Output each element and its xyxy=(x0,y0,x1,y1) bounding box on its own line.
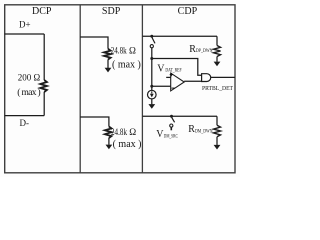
resistor R_DM_DWN top lead xyxy=(216,116,218,125)
junction node to comparator input branch xyxy=(150,85,153,88)
svg-text:Ω: Ω xyxy=(129,46,136,56)
ground arrow below R_DP_DWN xyxy=(214,62,221,67)
resistor R_DP_DWN bottom lead xyxy=(216,57,218,62)
svg-text:V: V xyxy=(157,63,165,74)
resistor R_DCP 200 ohm : zigzag body xyxy=(40,80,47,92)
switch S1 contact circle xyxy=(150,45,153,48)
resistor 24.8k lower : zigzag body xyxy=(105,127,112,139)
switch S1 lever xyxy=(152,38,155,44)
outer border xyxy=(5,5,235,173)
wire stub below switch S2 xyxy=(170,127,172,130)
svg-text:DAT_REF: DAT_REF xyxy=(165,68,181,74)
op-amp U1 plus sign xyxy=(170,73,173,76)
svg-text:( max ): ( max ) xyxy=(113,139,142,150)
svg-text:DM_SRC: DM_SRC xyxy=(164,133,178,139)
switch S2 junction dot on D- xyxy=(170,115,173,118)
AND gate xyxy=(202,74,211,82)
svg-text:Ω: Ω xyxy=(129,128,136,138)
resistor R_DCP 200 ohm : bottom lead wire xyxy=(43,92,45,116)
wire D+ (SDP) xyxy=(80,37,108,49)
op-amp U1 non-inverting input stub xyxy=(166,76,171,78)
switch S2 lever xyxy=(172,117,175,122)
wire D- (CDP) xyxy=(142,115,217,117)
wire D+ (CDP) xyxy=(142,35,217,37)
wire switch S1 to current source xyxy=(151,48,153,91)
svg-text:24.8k: 24.8k xyxy=(111,128,127,138)
resistor 24.8k lower : bottom lead xyxy=(108,138,110,145)
svg-text:SDP: SDP xyxy=(102,6,121,17)
panel divider DCP/SDP xyxy=(79,5,81,173)
junction node to AND gate branch xyxy=(150,57,153,60)
wire D- (DCP) xyxy=(5,115,45,117)
svg-text:200 Ω: 200 Ω xyxy=(18,72,41,82)
wire op-amp output to AND gate xyxy=(184,80,201,82)
svg-text:DM_DWN: DM_DWN xyxy=(195,129,213,135)
svg-text:( max ): ( max ) xyxy=(17,87,40,98)
current source I_DP internal arrow xyxy=(151,91,153,93)
svg-text:D+: D+ xyxy=(19,20,31,30)
svg-text:D-: D- xyxy=(20,118,30,128)
wire to comparator inverting input xyxy=(152,85,171,87)
resistor R_DM_DWN bottom lead xyxy=(216,137,218,145)
svg-text:DP_DWN: DP_DWN xyxy=(196,48,213,54)
svg-text:24.8k: 24.8k xyxy=(111,46,127,56)
resistor R_DCP 200 ohm : top lead wire xyxy=(43,34,45,80)
op-amp U1 minus sign xyxy=(172,87,175,89)
resistor 24.8k upper : bottom lead xyxy=(107,60,109,69)
ground arrow below current source xyxy=(151,99,153,105)
ground arrow upper (SDP) xyxy=(105,68,112,73)
svg-text:DCP: DCP xyxy=(32,6,52,17)
wire AND gate output to border xyxy=(211,76,235,78)
panel divider SDP/CDP xyxy=(141,5,143,173)
ground arrow lower (SDP) xyxy=(106,145,113,150)
resistor 24.8k upper : zigzag body xyxy=(104,49,111,60)
wire D- (SDP) xyxy=(80,117,109,127)
switch S1 junction dot on D+ xyxy=(150,35,153,38)
resistor R_DP_DWN top lead xyxy=(216,36,218,45)
svg-text:CDP: CDP xyxy=(178,6,198,17)
current source I_DP circle xyxy=(148,90,157,99)
svg-text:PRTBL_DET: PRTBL_DET xyxy=(202,85,233,92)
svg-text:( max ): ( max ) xyxy=(112,60,141,71)
resistor R_DP_DWN zigzag body xyxy=(214,46,221,57)
switch S2 contact circle xyxy=(170,124,173,127)
wire D+ (DCP) xyxy=(5,33,45,35)
ground arrow below R_DM_DWN xyxy=(214,145,221,150)
resistor R_DM_DWN zigzag body xyxy=(214,125,221,137)
op-amp U1 triangle xyxy=(171,73,185,91)
wire branch to AND gate top input xyxy=(152,59,202,76)
